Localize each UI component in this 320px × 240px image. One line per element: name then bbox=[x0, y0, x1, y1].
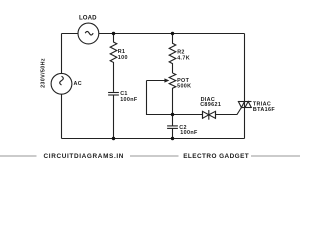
node wiper junction bbox=[171, 113, 174, 116]
svg-text:CIRCUITDIAGRAMS.IN: CIRCUITDIAGRAMS.IN bbox=[44, 153, 125, 160]
diac D1 right triangle bbox=[209, 111, 216, 118]
svg-text:ELECTRO GADGET: ELECTRO GADGET bbox=[183, 153, 249, 160]
diac D1 bars bbox=[202, 111, 204, 118]
load source L1 bbox=[78, 23, 99, 44]
node top R1 bbox=[112, 32, 115, 35]
ac source V1 bbox=[51, 73, 72, 94]
wire C2 bottom bbox=[172, 128, 174, 138]
node bottom C2 bbox=[171, 137, 174, 140]
svg-text:AC: AC bbox=[74, 81, 83, 87]
svg-text:4.7K: 4.7K bbox=[177, 56, 190, 62]
node bottom C1 bbox=[112, 137, 115, 140]
wire C1 bottom bbox=[113, 95, 115, 139]
node top R2 bbox=[171, 32, 174, 35]
svg-text:BTA16F: BTA16F bbox=[253, 107, 275, 113]
triac Q1 right triangle bbox=[245, 102, 251, 108]
diac D1 center bar bbox=[208, 110, 210, 120]
wire bottom bbox=[62, 138, 245, 140]
footer rule bbox=[0, 155, 300, 156]
svg-text:230V/50Hz: 230V/50Hz bbox=[41, 58, 47, 88]
diac D1 left triangle bbox=[203, 111, 209, 118]
wire top left segment bbox=[62, 33, 79, 35]
wiper wire bbox=[147, 81, 173, 115]
resistor R2 bbox=[169, 34, 176, 74]
svg-text:500K: 500K bbox=[177, 83, 191, 89]
triac Q1 left triangle bbox=[238, 102, 244, 108]
svg-text:C89621: C89621 bbox=[200, 102, 221, 108]
svg-text:100nF: 100nF bbox=[180, 130, 198, 136]
pot arrow line bbox=[147, 80, 166, 82]
pot arrow head bbox=[164, 78, 169, 82]
capacitor C2 bbox=[167, 125, 178, 127]
wire left vertical upper bbox=[61, 34, 63, 74]
gate wire diac right bbox=[216, 108, 242, 115]
gate wire diac left bbox=[173, 114, 203, 116]
resistor R1 bbox=[110, 34, 117, 92]
wire right vertical bbox=[244, 34, 246, 139]
wire top right segment bbox=[99, 33, 245, 35]
svg-text:LOAD: LOAD bbox=[79, 14, 97, 21]
capacitor C1 bbox=[108, 92, 119, 94]
svg-text:100nF: 100nF bbox=[120, 97, 138, 103]
triac Q1 bottom bar bbox=[241, 107, 251, 109]
footer site right bbox=[179, 150, 252, 161]
wire left vertical lower bbox=[61, 94, 63, 138]
potentiometer POT bbox=[169, 73, 176, 126]
svg-text:100: 100 bbox=[118, 55, 128, 61]
triac Q1 top bar bbox=[238, 101, 252, 103]
footer site left bbox=[37, 150, 131, 161]
